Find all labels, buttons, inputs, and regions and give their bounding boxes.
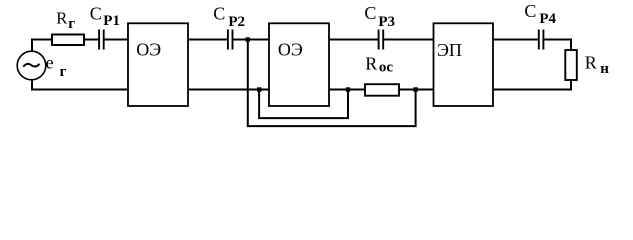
resistor R_н (load) (565, 50, 577, 80)
svg-text:C: C (213, 4, 225, 24)
wire R_ос to block3 left (399, 89, 434, 91)
label R_ос (365, 53, 393, 75)
svg-text:e: e (46, 52, 54, 72)
wire mid rail block1 to block2 (188, 89, 269, 91)
node B junction on mid rail (257, 87, 261, 91)
amplifier block U1 ОЭ (128, 23, 188, 106)
svg-text:ос: ос (379, 60, 394, 76)
svg-text:C: C (524, 1, 536, 21)
svg-text:ОЭ: ОЭ (136, 40, 161, 60)
wire C_Р4 to R_н top (544, 40, 571, 51)
wire R_н bottom to block3 right (493, 80, 571, 90)
label C_Р1 (90, 3, 120, 29)
svg-text:R: R (56, 9, 67, 28)
svg-text:ЭП: ЭП (437, 40, 462, 60)
wire C_Р1 to block 1 (105, 39, 128, 41)
svg-text:R: R (365, 53, 377, 73)
wire feedback inner loop node B to node C (259, 90, 348, 119)
wire C_Р3 to block 3 (384, 39, 433, 41)
svg-text:г: г (60, 64, 67, 80)
svg-text:C: C (364, 3, 376, 23)
capacitor C_Р3 (379, 30, 384, 50)
label R_г (56, 9, 75, 32)
resistor R_г (52, 35, 84, 46)
node D junction right of R_ос (413, 87, 417, 91)
node C junction left of R_ос (346, 87, 350, 91)
capacitor C_Р1 (99, 30, 104, 50)
wire source bottom rail to block1 (32, 79, 128, 89)
wire feedback outer loop node A to node D (248, 40, 416, 127)
resistor R_ос (feedback) (365, 84, 399, 96)
wire R_г to C_Р1 (84, 39, 98, 41)
wire block3 out to C_Р4 (493, 39, 538, 41)
label C_Р2 (213, 4, 245, 30)
label C_Р4 (524, 1, 556, 27)
capacitor C_Р2 (228, 30, 233, 50)
svg-text:ОЭ: ОЭ (278, 40, 303, 60)
svg-text:R: R (585, 53, 597, 73)
wire block2 right to R_ос (329, 89, 365, 91)
amplifier block U2 ОЭ (269, 23, 329, 106)
label R_н (585, 53, 609, 77)
wire block1 out to C_Р2 (188, 39, 227, 41)
capacitor C_Р4 (539, 30, 544, 50)
svg-text:Р4: Р4 (539, 11, 556, 27)
wire C_Р2 to block 2 (233, 39, 269, 41)
AC source e_г (17, 51, 46, 80)
label C_Р3 (364, 3, 395, 30)
wire block2 out to C_Р3 (329, 39, 378, 41)
wire source top to R_г (32, 40, 52, 52)
svg-text:Р2: Р2 (228, 14, 245, 30)
svg-text:C: C (90, 3, 102, 23)
svg-text:Р3: Р3 (378, 14, 395, 30)
svg-text:г: г (68, 16, 75, 32)
node A junction after C_Р2 (246, 37, 250, 41)
amplifier block U3 ЭП (434, 23, 494, 106)
svg-text:н: н (600, 61, 609, 77)
label e_г (46, 52, 67, 80)
svg-text:Р1: Р1 (103, 13, 120, 29)
